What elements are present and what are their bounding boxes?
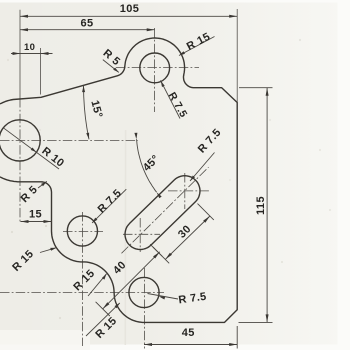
svg-text:65: 65 — [80, 17, 93, 29]
svg-text:10: 10 — [24, 42, 35, 53]
svg-text:105: 105 — [120, 3, 140, 15]
svg-text:115: 115 — [255, 196, 267, 215]
svg-text:15: 15 — [29, 209, 42, 221]
svg-text:45: 45 — [182, 327, 195, 339]
